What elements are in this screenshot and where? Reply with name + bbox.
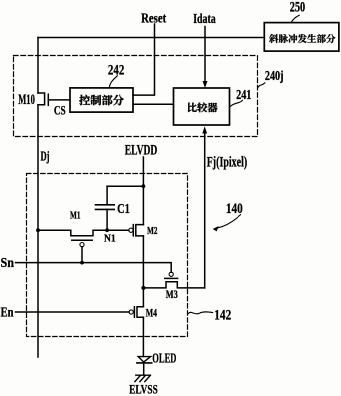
transistor M10 channel xyxy=(38,93,45,105)
svg-text:240j: 240j xyxy=(265,68,284,83)
wire top bus from Dj column to ramp generator xyxy=(38,37,264,39)
arrowhead Idata into comparator xyxy=(203,81,208,88)
svg-text:Sn: Sn xyxy=(1,255,15,270)
box 250 ramp pulse generator xyxy=(264,23,339,51)
wire Reset vertical into control box xyxy=(133,24,155,95)
svg-text:241: 241 xyxy=(236,87,251,102)
box 242 control section xyxy=(70,88,133,112)
svg-text:250: 250 xyxy=(290,0,305,15)
junction dot M2/M3/M4 node xyxy=(141,286,145,290)
svg-text:M10: M10 xyxy=(18,92,35,108)
text control section CJK xyxy=(79,95,123,106)
wire Fj(Ipixel) vertical to comparator xyxy=(204,133,206,288)
leader squiggle 142 xyxy=(188,312,212,314)
transistor M10 gate bar xyxy=(47,94,49,105)
transistor M2 gate circle xyxy=(129,228,133,232)
transistor M4 gate circle xyxy=(129,310,133,314)
svg-text:M1: M1 xyxy=(70,210,81,222)
capacitor C1 plates xyxy=(96,204,115,206)
wire capacitor C1 top link xyxy=(107,185,143,187)
leader line 250 xyxy=(291,15,299,22)
transistor M1 gate bar xyxy=(72,239,92,241)
dashed box 240j data driver block xyxy=(14,56,258,137)
svg-text:M4: M4 xyxy=(146,307,157,319)
wire control box to comparator xyxy=(133,103,174,105)
leader line 240j xyxy=(258,83,265,88)
wire data line Dj vertical xyxy=(37,38,39,94)
svg-text:Dj: Dj xyxy=(41,149,50,164)
svg-text:Fj(Ipixel): Fj(Ipixel) xyxy=(207,155,248,171)
wire OLED to ELVSS xyxy=(143,363,145,375)
box 241 comparator xyxy=(174,88,230,125)
svg-text:Idata: Idata xyxy=(193,11,216,26)
wire enable line En xyxy=(16,311,130,313)
junction dot C1/ELVDD xyxy=(142,184,146,188)
ground ELVSS symbol xyxy=(136,374,151,376)
svg-text:OLED: OLED xyxy=(152,351,176,366)
svg-text:N1: N1 xyxy=(104,232,116,244)
svg-text:Reset: Reset xyxy=(141,11,167,26)
junction dot Sn/M1 gate xyxy=(80,261,84,265)
transistor M1 gate circle xyxy=(80,243,84,247)
wire ELVDD vertical xyxy=(142,157,144,225)
diode OLED triangle xyxy=(138,357,150,363)
leader line 241 xyxy=(230,100,243,107)
junction dot Dj/M1 xyxy=(36,228,40,232)
svg-text:CS: CS xyxy=(54,102,66,117)
diode OLED cathode bar xyxy=(137,362,152,364)
leader arrow 140 xyxy=(218,215,241,228)
junction dot N1 xyxy=(105,228,109,232)
svg-text:En: En xyxy=(1,304,14,319)
svg-text:ELVDD: ELVDD xyxy=(125,143,158,159)
capacitor C1 bottom lead to N1 xyxy=(106,209,108,230)
transistor M3 channel and leads xyxy=(143,282,204,288)
transistor M1 channel and leads xyxy=(38,230,129,236)
wire M10 gate to control box xyxy=(48,99,70,101)
leader line 242 xyxy=(109,76,117,88)
wire M1 gate to Sn xyxy=(81,247,83,263)
capacitor C1 top lead xyxy=(106,186,108,205)
svg-text:140: 140 xyxy=(226,201,243,217)
wire Idata vertical into comparator xyxy=(204,27,206,82)
svg-text:ELVSS: ELVSS xyxy=(129,383,158,396)
transistor M3 gate bar xyxy=(165,277,178,279)
svg-text:M3: M3 xyxy=(166,289,178,301)
text comparator CJK xyxy=(188,102,218,112)
arrowhead Fj into comparator xyxy=(202,126,207,133)
transistor M2 gate bar xyxy=(132,225,134,236)
transistor M2 channel xyxy=(136,225,144,236)
transistor M4 channel xyxy=(137,307,143,318)
svg-text:242: 242 xyxy=(108,62,124,78)
svg-text:C1: C1 xyxy=(117,202,130,217)
dashed box 142 pixel circuit xyxy=(27,174,188,337)
arrowhead 140 pointer xyxy=(213,226,219,231)
transistor M3 gate circle xyxy=(169,272,173,276)
text ramp pulse generator CJK xyxy=(269,34,335,43)
transistor M4 gate bar xyxy=(133,307,135,318)
wire ELVDD line M2 to M4 xyxy=(142,236,144,307)
svg-text:M2: M2 xyxy=(147,225,158,237)
svg-text:142: 142 xyxy=(214,308,231,324)
wire scan line Sn xyxy=(16,263,172,273)
wire M4 to OLED xyxy=(142,317,144,356)
